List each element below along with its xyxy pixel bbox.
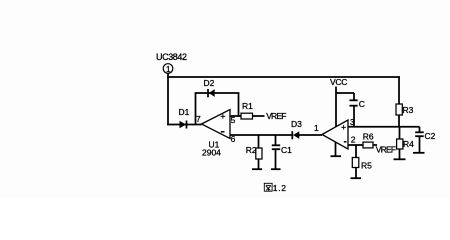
svg-text:UC3842: UC3842 (156, 52, 187, 62)
wire pin6 row (230, 134, 293, 136)
wire R1 to VREF (253, 115, 265, 117)
svg-text:2: 2 (351, 134, 356, 144)
svg-text:+: + (341, 123, 346, 133)
capacitor C2 (415, 127, 435, 153)
svg-text:R6: R6 (363, 131, 374, 141)
wire R4 lead (399, 127, 401, 140)
svg-text:R3: R3 (403, 105, 414, 115)
diode D3 (291, 119, 302, 139)
wire R2 to ground (258, 159, 260, 169)
wire pin3 row (348, 126, 420, 128)
svg-text:C2: C2 (425, 131, 436, 141)
ground R5 (351, 177, 362, 179)
svg-text:D1: D1 (179, 107, 190, 117)
capacitor C1 (272, 135, 292, 169)
svg-text:D2: D2 (204, 78, 215, 88)
svg-text:2904: 2904 (202, 148, 221, 158)
wire right vertical upper (398, 76, 400, 104)
svg-text:R1: R1 (242, 101, 253, 111)
resistor R2 (246, 145, 262, 159)
svg-text:C: C (359, 99, 365, 109)
resistor R5 (352, 158, 372, 171)
resistor R3 (396, 104, 414, 115)
svg-text:R5: R5 (361, 161, 372, 171)
capacitor C (350, 93, 365, 127)
ground C2 (413, 152, 425, 154)
diode D2 (204, 78, 215, 98)
wire R3 to junction (398, 115, 400, 128)
svg-text:1.2: 1.2 (273, 183, 287, 193)
caption figure 1.2 (264, 183, 286, 193)
wire VCC vertical (335, 87, 337, 128)
wire left vertical (167, 73, 169, 125)
svg-text:R4: R4 (403, 139, 414, 149)
diode D1 (179, 107, 190, 129)
resistor R6 (363, 131, 374, 148)
wire pin2 row (348, 144, 364, 146)
resistor R4 (397, 139, 415, 149)
svg-text:VREF: VREF (376, 144, 396, 154)
wire R2 drop (258, 135, 260, 149)
ground R2 (252, 168, 262, 170)
wire D3 to U2 apex (299, 134, 322, 136)
svg-text:VREF: VREF (266, 111, 286, 121)
svg-text:+: + (220, 111, 225, 121)
node circled 1 (163, 64, 173, 74)
op-amp U2 (322, 117, 356, 149)
ground C1 (271, 168, 281, 170)
svg-text:1: 1 (314, 123, 319, 133)
wire top horizontal (167, 76, 400, 78)
wire D1 row (167, 124, 201, 126)
wire feedback right vertical (238, 93, 240, 117)
ground U2 (331, 142, 342, 156)
wire R6 to VREF (373, 144, 377, 146)
wire feedback top (195, 92, 240, 94)
node UC3842 pin1 label (156, 52, 187, 62)
svg-text:7: 7 (196, 114, 201, 124)
svg-text:R2: R2 (246, 145, 257, 155)
wire C branch (336, 92, 354, 94)
wire feedback left vertical (195, 93, 197, 126)
ground R4 (394, 158, 406, 160)
svg-text:D3: D3 (291, 119, 302, 129)
svg-text:VCC: VCC (330, 77, 347, 87)
op-amp U1 (196, 110, 236, 158)
wire R5 drop (355, 145, 357, 158)
wire pin5 to R1 (230, 115, 242, 117)
svg-text:C1: C1 (281, 145, 292, 155)
svg-text:1: 1 (166, 65, 171, 74)
resistor R1 (241, 101, 253, 119)
wire R4 to ground (399, 149, 401, 159)
wire R5 to ground (355, 168, 357, 179)
